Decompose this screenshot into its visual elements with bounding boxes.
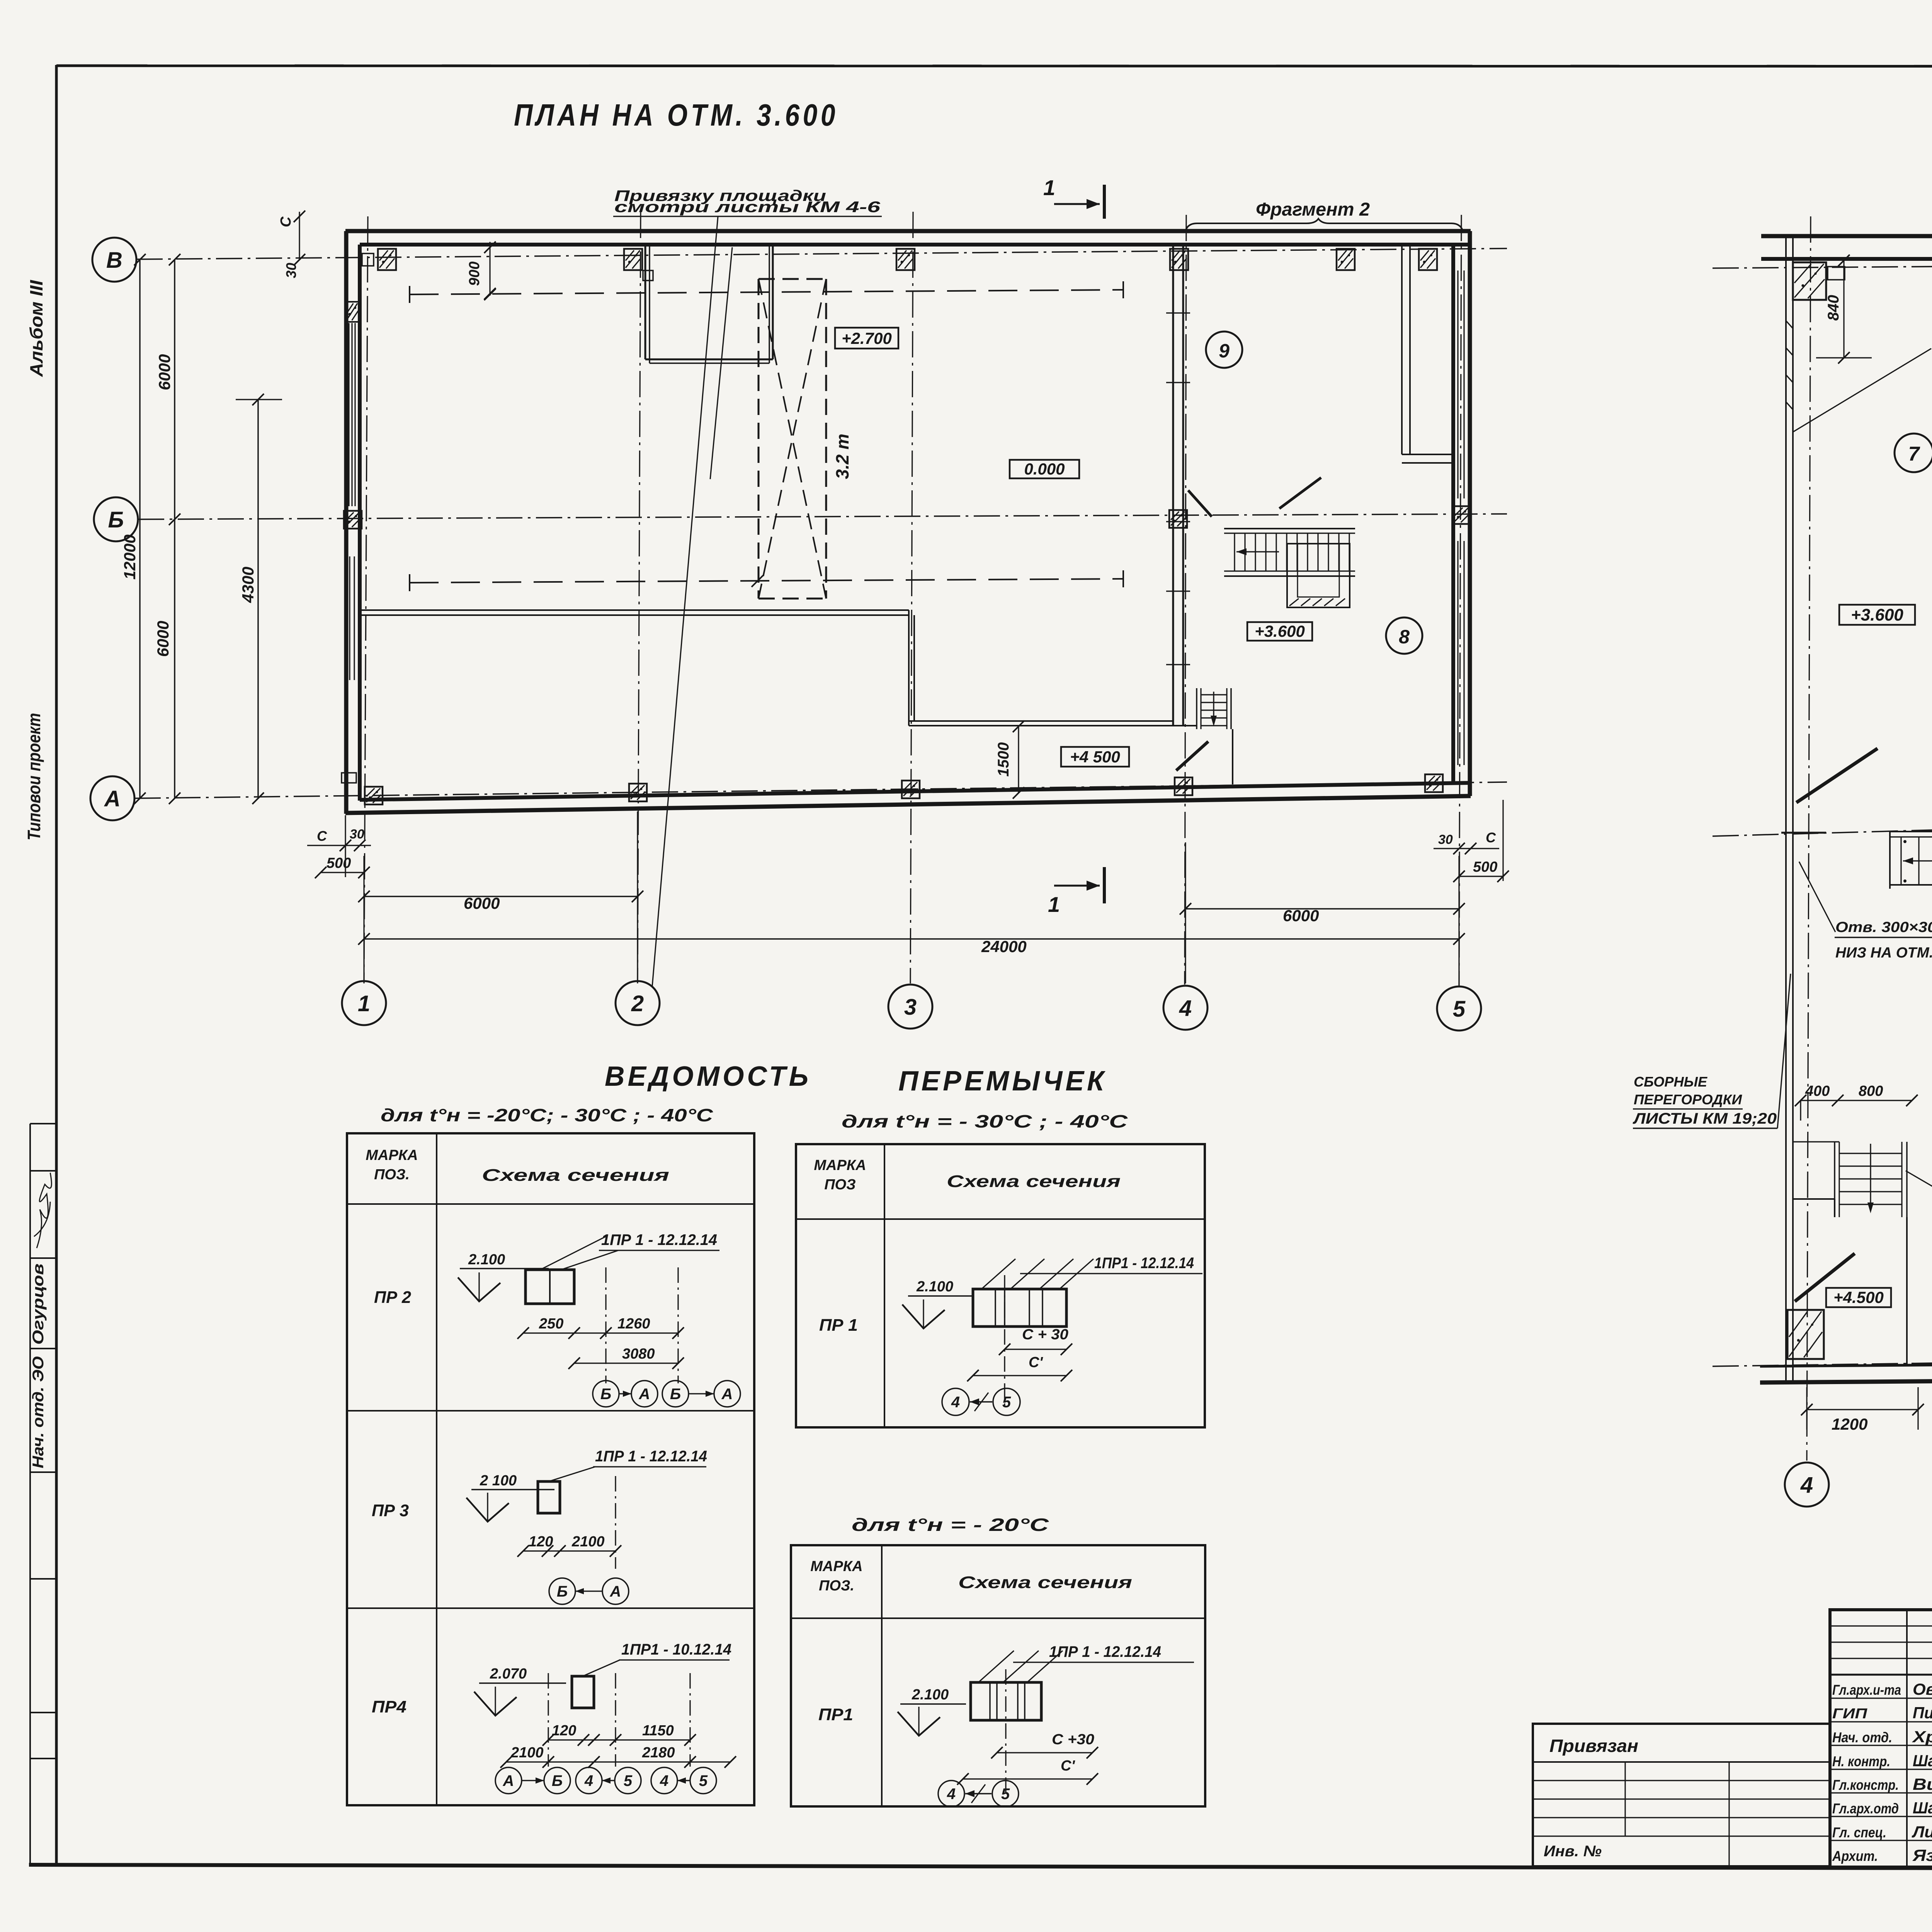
door leaves left plan [1188,490,1212,517]
svg-text:ПР4: ПР4 [372,1697,406,1716]
crane zone dashed rect 3.2t [759,278,826,280]
bottom dim 6000 axis1-2 [364,896,638,897]
columns hatched squares top wall [378,249,396,270]
svg-text:МАРКА: МАРКА [810,1558,862,1575]
svg-text:1ПР 1 - 12.12.14: 1ПР 1 - 12.12.14 [595,1448,707,1465]
svg-text:4: 4 [951,1394,960,1411]
svg-text:5: 5 [699,1772,708,1789]
svg-text:4: 4 [660,1772,668,1789]
svg-text:Язычьян: Язычьян [1912,1846,1932,1864]
svg-text:5: 5 [1002,1394,1011,1411]
bottom small dims C 30 left [307,845,371,846]
margin signature squiggle [37,1173,51,1248]
svg-text:1: 1 [358,991,370,1016]
svg-text:4300: 4300 [239,567,257,603]
svg-text:С: С [317,828,327,844]
svg-text:6000: 6000 [1283,906,1319,925]
svg-text:Гл. спец.: Гл. спец. [1832,1825,1886,1840]
svg-text:+4.500: +4.500 [1833,1288,1884,1306]
platform recess +2.700 [645,244,646,359]
svg-text:Огурцов: Огурцов [30,1264,47,1345]
svg-text:ПОЗ.: ПОЗ. [819,1578,854,1594]
stair shaft hatched U left plan [1287,544,1350,607]
left wall hatched block [345,302,360,322]
svg-text:Шаломеев: Шаломеев [1913,1799,1932,1817]
level box +4.500 fragment [1826,1288,1891,1307]
dimension 4300 [257,400,259,798]
svg-text:С: С [1486,830,1496,845]
leader line from note to plan [652,216,718,986]
svg-text:Ованесян: Ованесян [1913,1680,1932,1698]
svg-text:ЛИСТЫ КМ 19;20: ЛИСТЫ КМ 19;20 [1633,1110,1777,1127]
svg-text:Инв. №: Инв. № [1544,1843,1602,1860]
dimension 900 near axis V [489,242,490,296]
top-left big hatched column [1793,262,1826,300]
bottom dim 500 right [1459,876,1503,877]
crane rail dashed line upper [410,290,1123,294]
svg-text:Винклер: Винклер [1913,1775,1932,1793]
room circle 8 left plan [1386,617,1422,654]
table 2b grid [791,1545,1205,1806]
svg-text:ПОЗ.: ПОЗ. [374,1167,410,1183]
svg-text:5: 5 [1001,1786,1010,1803]
svg-text:С': С' [1029,1354,1043,1371]
svg-text:Фрагмент 2: Фрагмент 2 [1256,199,1370,220]
svg-text:Б: Б [552,1772,563,1789]
room circle 9 left plan [1206,332,1242,368]
fragment left edge wall [1785,235,1787,1383]
svg-text:ПР 2: ПР 2 [374,1288,412,1307]
bottom small dims 30 C right [1434,848,1499,849]
svg-text:0.000: 0.000 [1024,460,1065,478]
svg-text:2.100: 2.100 [912,1687,949,1703]
svg-text:А: А [639,1386,650,1403]
svg-text:Типовои проект: Типовои проект [24,713,44,840]
svg-text:НИЗ НА ОТМ. 6.650: НИЗ НА ОТМ. 6.650 [1835,945,1932,961]
svg-text:500: 500 [1473,859,1497,875]
left door leaf fragment [1796,748,1878,803]
svg-text:4: 4 [1800,1473,1813,1498]
fragment axis row lines [1713,263,1932,268]
sheet frame [55,65,58,1866]
svg-text:А: А [721,1386,733,1403]
axis row circles V B A [92,238,136,282]
svg-text:Нач. отд. ЭО: Нач. отд. ЭО [30,1356,47,1468]
small stair LG-2 plan [1794,1141,1839,1142]
svg-text:С +30: С +30 [1052,1731,1094,1748]
privyazan sub-table [1533,1724,1830,1866]
stair room9 left plan [1224,528,1355,529]
svg-text:ПР1: ПР1 [818,1705,853,1724]
svg-text:800: 800 [1859,1083,1883,1099]
svg-text:30: 30 [283,263,299,278]
svg-text:+2.700: +2.700 [842,329,892,347]
svg-text:2.070: 2.070 [490,1666,527,1682]
small stair lg2 left plan [1196,688,1197,729]
svg-text:1500: 1500 [995,742,1012,777]
svg-text:С + 30: С + 30 [1022,1327,1068,1343]
svg-text:+3.600: +3.600 [1851,605,1903,624]
svg-text:Привязан: Привязан [1549,1736,1638,1756]
svg-text:Шаломеев: Шаломеев [1913,1752,1932,1770]
svg-text:Нач. отд.: Нач. отд. [1832,1730,1892,1745]
dim 840 top left [1843,260,1844,358]
svg-text:МАРКА: МАРКА [814,1157,866,1173]
svg-text:1ПР1 - 10.12.14: 1ПР1 - 10.12.14 [621,1641,731,1658]
svg-text:Б: Б [557,1583,568,1600]
columns bottom wall row [365,787,383,804]
axis column circles 1-5 [342,981,386,1025]
bottom dim 24000 total [364,938,1459,940]
svg-text:+3.600: +3.600 [1255,622,1305,640]
svg-text:2: 2 [631,991,644,1016]
big stair LG-17 [1890,831,1932,832]
svg-text:250: 250 [539,1316,563,1332]
svg-text:6000: 6000 [154,621,172,657]
svg-text:+4 500: +4 500 [1070,748,1120,766]
svg-text:9: 9 [1219,340,1230,362]
svg-text:Б: Б [108,507,124,532]
stamp vertical lines [1906,1610,1908,1867]
svg-text:6000: 6000 [464,894,500,912]
fragment axis column circles 4 5 [1785,1463,1829,1507]
level box +2.700 [835,328,898,349]
svg-text:1150: 1150 [642,1723,674,1739]
stamp top small rows [1830,1625,1932,1626]
svg-text:Схема сечения: Схема сечения [947,1172,1121,1191]
inner partition near right wall [1401,245,1403,454]
svg-text:1200: 1200 [1832,1415,1867,1433]
svg-text:3: 3 [904,995,917,1020]
svg-text:Б: Б [670,1386,681,1403]
circle room 7 [1895,434,1932,472]
table 1 grid [347,1133,754,1805]
stamp name rows [1830,1697,1932,1699]
svg-text:2100: 2100 [571,1534,605,1550]
svg-text:ПОЗ: ПОЗ [824,1177,855,1193]
svg-text:Альбом III: Альбом III [26,280,46,377]
axis row lines [136,248,1507,259]
svg-text:3.2 т: 3.2 т [832,434,852,479]
main stamp outer [1830,1610,1932,1867]
svg-text:12000: 12000 [121,534,139,580]
svg-text:Схема сечения: Схема сечения [482,1166,669,1185]
svg-text:5: 5 [624,1772,633,1789]
fragment axis column lines 4 5 [1807,216,1811,1461]
svg-text:Б: Б [600,1386,611,1403]
svg-text:МАРКА: МАРКА [366,1147,418,1163]
svg-text:30: 30 [350,827,364,842]
svg-text:2100: 2100 [510,1745,544,1761]
svg-text:Отв. 300×300 ОВ: Отв. 300×300 ОВ [1835,919,1932,935]
columns on axis B row [344,511,362,529]
interior wall W1 vertical [1172,244,1174,726]
svg-text:1: 1 [1048,892,1060,917]
extension lines to dims [345,815,346,877]
svg-text:8: 8 [1399,626,1410,648]
svg-text:1ПР 1 - 12.12.14: 1ПР 1 - 12.12.14 [1049,1643,1161,1660]
svg-text:Гл.констр.: Гл.констр. [1832,1777,1899,1793]
level box +4.500 left plan [1061,747,1129,767]
left total dimension 12000 [139,260,141,798]
fragment level box +3.600 [1839,605,1915,625]
svg-text:Н. контр.: Н. контр. [1832,1753,1890,1769]
building exterior walls [345,229,1471,233]
dims 400 800 small stair [1801,1100,1912,1101]
table 2a grid [796,1144,1205,1427]
level box 0.000 [1010,460,1079,478]
svg-text:ПЕРЕМЫЧЕК: ПЕРЕМЫЧЕК [898,1066,1107,1097]
svg-text:1: 1 [1043,175,1055,200]
svg-text:А: А [503,1772,514,1789]
svg-text:120: 120 [529,1534,553,1550]
svg-text:Архит.: Архит. [1832,1848,1878,1864]
svg-text:1ПР1 - 12.12.14: 1ПР1 - 12.12.14 [1094,1255,1194,1272]
svg-text:24000: 24000 [981,937,1027,956]
svg-text:для t°н = -20°С; - 30°С ; - 4: для t°н = -20°С; - 30°С ; - 40°С [381,1105,713,1125]
right wall window lines [1457,270,1458,498]
svg-text:4: 4 [947,1786,956,1803]
svg-text:ВЕДОМОСТЬ: ВЕДОМОСТЬ [605,1061,811,1092]
svg-text:С': С' [1061,1758,1075,1774]
svg-text:400: 400 [1805,1083,1830,1099]
svg-text:900: 900 [466,262,483,286]
bottom left door and column [1795,1253,1855,1301]
svg-text:ГИП: ГИП [1832,1706,1868,1721]
bottom dim 6000 axis4-5 [1185,908,1459,910]
dim 1200 [1807,1409,1918,1410]
svg-text:С: С [278,216,294,227]
svg-text:Лисичкин: Лисичкин [1912,1823,1932,1841]
svg-text:Схема сечения: Схема сечения [958,1573,1132,1592]
crane rail dashed line lower [410,579,1123,583]
svg-text:120: 120 [552,1723,576,1739]
svg-text:Гл.арх.и-та: Гл.арх.и-та [1832,1682,1901,1698]
svg-text:А: А [610,1583,621,1600]
axis column lines 1-5 [364,216,368,980]
svg-text:для t°н = - 30°С ; - 40°С: для t°н = - 30°С ; - 40°С [842,1111,1128,1131]
svg-text:2.100: 2.100 [916,1279,953,1295]
svg-text:4: 4 [584,1772,593,1789]
svg-text:500: 500 [327,855,351,871]
left vertical dimension chain 6000/6000 [174,260,175,798]
bottom dim 500 left [321,872,364,873]
fragment bottom wall [1760,1362,1932,1366]
svg-text:2180: 2180 [642,1745,675,1761]
left wall window lines [348,323,349,506]
svg-text:4: 4 [1179,996,1192,1021]
svg-text:ПЛАН НА ОТМ. 3.600: ПЛАН НА ОТМ. 3.600 [514,98,838,132]
dim 1500 left plan [1018,726,1019,793]
svg-text:7: 7 [1908,443,1920,465]
level box +3.600 left plan [1247,622,1312,641]
svg-text:Гл.арх.отд: Гл.арх.отд [1832,1801,1899,1816]
svg-text:Пивторак: Пивторак [1913,1704,1932,1722]
interior wall W2 horizontal and step [360,609,909,611]
svg-text:А: А [104,786,121,811]
svg-text:6000: 6000 [155,354,173,390]
top-left small dims C 30 [299,212,300,260]
fragment top wall [1761,234,1932,238]
svg-text:5: 5 [1453,997,1466,1022]
svg-text:ПР 3: ПР 3 [372,1501,409,1520]
svg-text:В: В [106,248,122,273]
svg-text:ПР 1: ПР 1 [819,1316,858,1335]
svg-text:3080: 3080 [622,1346,655,1362]
svg-text:30: 30 [1438,832,1453,847]
svg-text:2.100: 2.100 [468,1252,505,1268]
left margin strip boxes [29,1124,31,1865]
svg-text:смотри листы КМ 4-6: смотри листы КМ 4-6 [614,199,881,216]
svg-text:ПЕРЕГОРОДКИ: ПЕРЕГОРОДКИ [1634,1092,1742,1107]
svg-text:СБОРНЫЕ: СБОРНЫЕ [1634,1074,1708,1090]
svg-text:Хрупало: Хрупало [1912,1728,1932,1746]
svg-text:840: 840 [1825,295,1842,321]
svg-text:для t°н = - 20°С: для t°н = - 20°С [852,1515,1049,1535]
svg-text:2 100: 2 100 [480,1473,517,1489]
svg-text:1260: 1260 [617,1316,650,1332]
svg-text:1ПР 1 - 12.12.14: 1ПР 1 - 12.12.14 [601,1231,717,1248]
